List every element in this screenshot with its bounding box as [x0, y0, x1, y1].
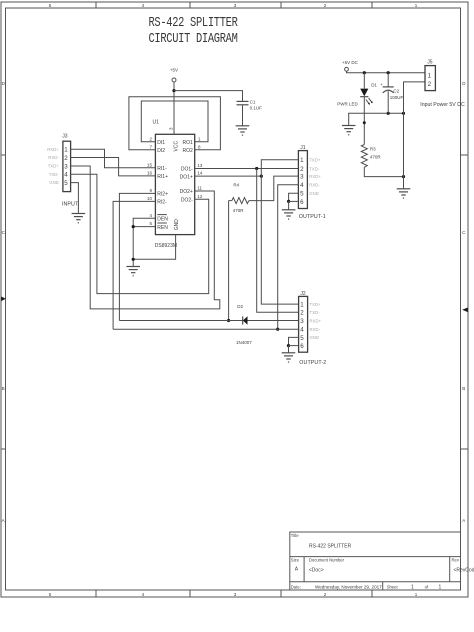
svg-text:5: 5 — [300, 335, 304, 342]
svg-text:D1: D1 — [371, 83, 377, 88]
ground under J3 — [72, 214, 86, 223]
svg-text:C1: C1 — [250, 99, 256, 104]
U1 right pin numbers — [197, 136, 203, 199]
power +5V symbol at U1 — [170, 67, 178, 82]
svg-text:B: B — [462, 386, 465, 391]
svg-text:+5V DC: +5V DC — [342, 60, 359, 65]
ground at power rail right — [397, 189, 411, 198]
svg-text:Date:: Date: — [291, 584, 301, 589]
node GND rail junction — [132, 258, 135, 261]
svg-text:Input Power 5V DC: Input Power 5V DC — [420, 102, 465, 108]
power +5V DC terminal — [342, 60, 359, 71]
svg-text:2: 2 — [300, 310, 304, 317]
svg-text:6: 6 — [300, 343, 304, 350]
ground under C1 — [236, 126, 250, 135]
svg-text:R4: R4 — [233, 182, 239, 187]
svg-text:<Doc>: <Doc> — [309, 568, 324, 574]
wire J1 gnd stem — [288, 201, 290, 209]
node R4/D2 junction — [227, 319, 230, 322]
svg-text:5: 5 — [64, 180, 68, 187]
svg-text:DO2+: DO2+ — [180, 189, 193, 195]
svg-text:6: 6 — [300, 199, 304, 206]
svg-text:GND: GND — [174, 219, 180, 231]
svg-text:1: 1 — [428, 72, 432, 79]
wire TXD- net: U1 DO1- to J1.2 — [195, 168, 299, 170]
svg-text:RO1: RO1 — [183, 140, 194, 146]
svg-text:RI2+: RI2+ — [157, 192, 168, 198]
U1 VCC pin text (rotated) — [174, 141, 180, 152]
svg-text:3: 3 — [64, 163, 68, 170]
svg-text:12: 12 — [197, 194, 203, 199]
svg-text:DS8923M: DS8923M — [155, 243, 177, 249]
svg-text:RS-422 SPLITTER: RS-422 SPLITTER — [309, 544, 352, 550]
wire RXD- return net to J2.4 — [113, 328, 299, 330]
ground under U1 — [126, 267, 140, 276]
TITLE BLOCK — [290, 532, 474, 591]
svg-text:DO1-: DO1- — [181, 167, 193, 173]
svg-text:RXD+: RXD+ — [47, 147, 59, 152]
wire J2 gnd stem — [288, 346, 290, 353]
svg-text:TXD-: TXD- — [49, 172, 60, 177]
wire TXD+ branch down to J2.1 — [261, 176, 298, 304]
wire loop RO1 to DI1 (inner) — [141, 101, 208, 142]
svg-text:J5: J5 — [427, 60, 433, 66]
diode D2 1N4007 — [236, 304, 252, 345]
wire U1 RI2+ down to D2 net — [119, 193, 155, 320]
svg-text:U1: U1 — [153, 119, 160, 125]
wire TXD+ branch up to J1.1 — [261, 160, 298, 176]
svg-text:TXD+: TXD+ — [48, 164, 60, 169]
svg-text:DO1+: DO1+ — [180, 174, 193, 180]
svg-text:1: 1 — [300, 157, 304, 164]
title text — [148, 15, 238, 47]
node DEN/REN junction — [132, 225, 135, 228]
wire J1.4 down to J2.4 net — [278, 185, 299, 330]
resistor R4 — [229, 182, 249, 213]
svg-text:470R: 470R — [370, 154, 382, 159]
svg-text:OUTPUT-2: OUTPUT-2 — [299, 360, 326, 366]
svg-text:Sheet: Sheet — [387, 584, 399, 589]
svg-text:J2: J2 — [300, 291, 306, 297]
J3 signal labels — [47, 147, 59, 185]
svg-text:RXD+: RXD+ — [310, 318, 322, 323]
wire J3.3 TXD+ to U1 DO2+ — [71, 166, 220, 309]
J1 signal labels — [309, 158, 321, 197]
connector J2 (OUTPUT-2) — [299, 291, 327, 366]
svg-text:Size: Size — [291, 558, 300, 563]
wire TXD- branch down to J2.2 — [257, 169, 299, 313]
svg-text:RI1+: RI1+ — [157, 174, 168, 180]
node on D1-R3 wire — [363, 121, 366, 124]
resistor R3 — [361, 145, 381, 168]
svg-text:2: 2 — [64, 155, 68, 162]
svg-text:RXD-: RXD- — [48, 155, 59, 160]
wire J1.3 to R4 right lead — [249, 176, 299, 201]
node J1 gnd junction — [287, 200, 290, 203]
ground under J1 — [282, 210, 296, 219]
U1 left pin numbers — [147, 136, 153, 226]
J2 signal labels — [310, 302, 322, 340]
svg-text:5: 5 — [300, 191, 304, 198]
svg-text:1: 1 — [300, 302, 304, 309]
node rail/C2 junction — [387, 71, 390, 74]
wire J2.6 to gnd — [289, 345, 299, 347]
svg-text:2: 2 — [300, 166, 304, 173]
svg-text:TXD+: TXD+ — [310, 302, 322, 307]
svg-text:2: 2 — [428, 81, 432, 88]
svg-text:+5V: +5V — [170, 67, 178, 72]
svg-text:CIRCUIT DIAGRAM: CIRCUIT DIAGRAM — [148, 30, 237, 46]
node J1.4/J2.4 junction — [276, 328, 279, 331]
U1 value label DS8923M — [155, 243, 177, 249]
svg-text:<RevCode: <RevCode — [454, 568, 474, 574]
wire C1 to ground — [242, 105, 244, 125]
wire R3 bottom to gnd rail — [364, 167, 403, 176]
svg-text:Document Number: Document Number — [309, 558, 345, 563]
svg-text:B: B — [2, 386, 5, 391]
wire U1 DEN tie — [133, 218, 155, 266]
svg-text:10: 10 — [147, 196, 153, 201]
svg-text:GND: GND — [49, 180, 59, 185]
wire J1.5 to gnd branch — [289, 193, 299, 201]
ground at power rail left — [342, 126, 356, 135]
svg-text:J3: J3 — [62, 134, 68, 140]
wire J2.5 to gnd branch — [289, 337, 299, 345]
node C2 bottom junction — [387, 112, 390, 115]
node +5V/C1 junction — [172, 89, 175, 92]
svg-text:RI1-: RI1- — [157, 166, 167, 172]
svg-text:DEN: DEN — [157, 216, 168, 222]
wire J3.4 TXD- to U1 DO2- — [71, 174, 209, 293]
svg-text:REN: REN — [157, 225, 168, 231]
LED D1 (PWR LED) — [337, 73, 377, 107]
wire J3.1 RXD+ to U1 RI1- — [71, 149, 156, 168]
svg-text:C2: C2 — [393, 89, 399, 94]
wire J3.5 GND to ground — [71, 183, 79, 214]
svg-text:TXD+: TXD+ — [309, 158, 321, 163]
svg-text:D2: D2 — [237, 304, 243, 309]
svg-text:RXD-: RXD- — [309, 183, 320, 188]
svg-text:470R: 470R — [233, 208, 245, 213]
svg-text:3: 3 — [300, 318, 304, 325]
svg-text:DI1: DI1 — [157, 140, 165, 146]
svg-text:RI2-: RI2- — [157, 200, 167, 206]
svg-text:RXD+: RXD+ — [309, 174, 321, 179]
node rail/D1 junction — [363, 71, 366, 74]
svg-text:100UF: 100UF — [390, 95, 404, 100]
capacitor C2 100UF — [380, 73, 404, 114]
wire U1 REN tie — [133, 226, 155, 228]
U1 pin number 3 (VCC, rotated) — [169, 127, 174, 130]
svg-text:GND: GND — [310, 335, 320, 340]
U1 right pin texts — [180, 140, 194, 204]
node TXD- branch — [255, 167, 258, 170]
svg-text:OUTPUT-1: OUTPUT-1 — [299, 214, 326, 220]
svg-text:A: A — [2, 518, 5, 523]
node R3/gnd riser junction — [402, 175, 405, 178]
svg-text:16: 16 — [147, 171, 153, 176]
svg-text:+: + — [380, 82, 383, 87]
svg-text:PWR LED: PWR LED — [337, 101, 358, 106]
svg-text:4: 4 — [300, 182, 304, 189]
connector J5 (Input Power) — [425, 60, 435, 91]
op-amp U1 body (DS8923 driver/receiver IC) — [153, 119, 195, 234]
wire TXD+ net: U1 DO1+ to branch node — [195, 175, 262, 177]
svg-text:DO2-: DO2- — [181, 197, 193, 203]
svg-text:GND: GND — [309, 191, 319, 196]
U1 GND pin text (rotated) — [174, 219, 180, 231]
wire gnd rail left — [349, 113, 404, 125]
svg-text:13: 13 — [197, 163, 203, 168]
svg-text:1: 1 — [439, 585, 442, 591]
node TXD+ branch — [260, 175, 263, 178]
svg-text:RS-422 SPLITTER: RS-422 SPLITTER — [148, 15, 238, 31]
connector J1 (OUTPUT-1) — [298, 145, 325, 220]
wire J3.2 RXD- to U1 RI1+ — [71, 158, 156, 176]
svg-text:RO2: RO2 — [183, 148, 194, 154]
svg-text:3: 3 — [300, 174, 304, 181]
wire J5.2 riser down to ground — [404, 82, 426, 189]
wire R4 left lead down to D2 net — [228, 201, 230, 321]
svg-text:1: 1 — [64, 147, 68, 154]
svg-text:15: 15 — [147, 162, 153, 167]
svg-text:J1: J1 — [300, 145, 306, 151]
svg-text:0.1UF: 0.1UF — [250, 106, 263, 111]
svg-text:14: 14 — [197, 171, 203, 176]
wire +5V to C1 — [174, 91, 243, 101]
svg-text:DI2: DI2 — [157, 148, 165, 154]
svg-text:Title: Title — [291, 533, 299, 538]
wire U1 GND pin to ground rail — [133, 235, 175, 260]
svg-text:R3: R3 — [370, 147, 376, 152]
wire RXD+ return net (D2 cathode side) — [119, 320, 242, 322]
svg-text:INPUT: INPUT — [62, 201, 79, 207]
svg-text:TXD-: TXD- — [310, 310, 321, 315]
svg-text:4: 4 — [300, 327, 304, 334]
capacitor C1 — [237, 99, 263, 110]
svg-text:RXD-: RXD- — [310, 327, 321, 332]
svg-text:A: A — [462, 518, 465, 523]
node J2 gnd junction — [287, 344, 290, 347]
wire D2 anode to J2.3 — [248, 320, 299, 322]
connector J3 (INPUT) — [62, 134, 79, 208]
wire J1.6 to gnd — [289, 200, 299, 202]
U1 left pin texts — [157, 140, 168, 231]
svg-text:TXD-: TXD- — [309, 166, 320, 171]
ground under J2 — [282, 353, 296, 362]
wire +5V to U1 VCC pin — [173, 82, 175, 134]
wire loop RO2 to DI2 (outer) — [129, 97, 221, 150]
wire D1 cathode down to R3 — [363, 97, 365, 145]
svg-text:Wednesday, November 29, 2017: Wednesday, November 29, 2017 — [315, 584, 382, 589]
svg-text:1: 1 — [411, 585, 414, 591]
node rail/J5.2 riser junction — [402, 112, 405, 115]
svg-text:11: 11 — [197, 186, 202, 191]
svg-text:4: 4 — [64, 172, 68, 179]
svg-text:VCC: VCC — [174, 141, 180, 152]
svg-text:1N4007: 1N4007 — [236, 340, 252, 345]
wire +5V DC rail to J5.1 — [347, 71, 426, 73]
J5 caption — [420, 102, 465, 108]
wire U1 RI2- down to J2.4 net — [113, 201, 155, 329]
svg-text:Rev: Rev — [452, 558, 460, 563]
